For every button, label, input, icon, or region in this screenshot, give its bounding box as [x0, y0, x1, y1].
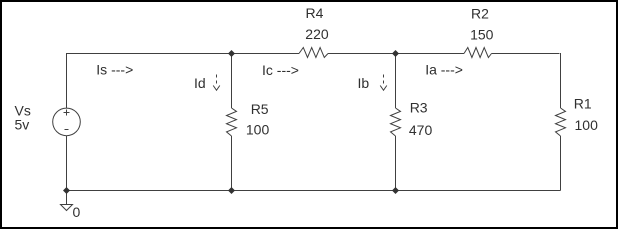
- svg-text:Is --->: Is --->: [96, 62, 133, 78]
- svg-text:Ic --->: Ic --->: [262, 62, 299, 78]
- svg-text:R2: R2: [471, 6, 489, 22]
- svg-text:R5: R5: [251, 101, 269, 117]
- svg-text:Ib: Ib: [358, 75, 370, 91]
- svg-text:0: 0: [73, 204, 81, 220]
- svg-text:R4: R4: [306, 5, 324, 21]
- svg-text:Ia --->: Ia --->: [425, 62, 463, 78]
- svg-text:5v: 5v: [15, 117, 30, 133]
- svg-text:470: 470: [409, 122, 433, 138]
- svg-text:150: 150: [470, 27, 494, 43]
- svg-text:220: 220: [305, 26, 329, 42]
- svg-text:100: 100: [246, 122, 270, 138]
- svg-text:Id: Id: [194, 75, 206, 91]
- svg-text:R1: R1: [574, 96, 592, 112]
- svg-text:R3: R3: [410, 100, 428, 116]
- svg-text:100: 100: [575, 117, 599, 133]
